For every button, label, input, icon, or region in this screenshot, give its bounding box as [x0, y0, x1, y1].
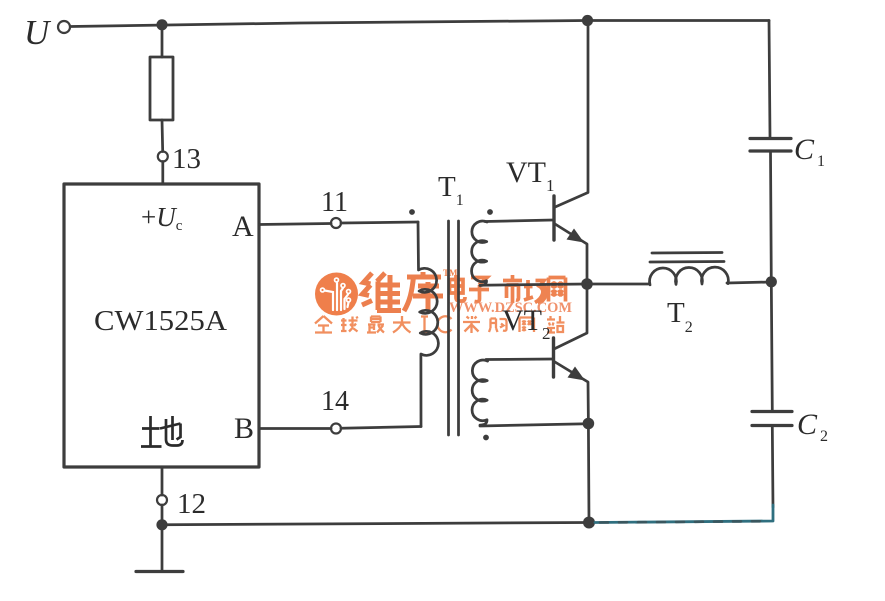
- transistor VT1 emitter: [555, 224, 587, 284]
- wire pin13 to IC: [161, 162, 164, 185]
- svg-text:11: 11: [321, 187, 348, 218]
- transistor VT2 emitter arrow: [568, 367, 586, 381]
- transistor VT2 collector: [554, 284, 587, 349]
- wire IC ground pin down: [161, 467, 164, 495]
- transformer T1 upper secondary winding: [472, 221, 487, 285]
- node right rail junction: [766, 276, 777, 287]
- transformer T1 lower secondary winding: [472, 360, 487, 425]
- transformer T1 phase dot lower secondary: [483, 435, 489, 441]
- wire C2 down: [771, 426, 774, 507]
- svg-text:+Uc: +Uc: [141, 202, 183, 234]
- wire terminal 11 to T1 primary: [341, 222, 418, 223]
- capacitor C1 plates: [750, 139, 791, 152]
- wire right rail upper (to C1): [769, 21, 770, 138]
- transistor VT1 emitter arrow: [567, 229, 585, 243]
- IC CW1525A body: [64, 184, 259, 467]
- wire bottom right teal return: [595, 505, 773, 523]
- watermark char I: [421, 317, 428, 333]
- wire right rail to C2: [771, 282, 772, 411]
- transformer T1 phase dot upper secondary: [487, 209, 493, 215]
- svg-text:U: U: [24, 13, 52, 52]
- wire T2 to right rail: [727, 282, 771, 283]
- wire bottom right teal return dark mottling: [600, 521, 770, 522]
- node resistor top junction: [156, 19, 167, 30]
- wire pin 12 to bottom rail: [161, 505, 164, 525]
- watermark char WANG: [549, 278, 566, 302]
- svg-text:T1: T1: [438, 171, 464, 209]
- svg-text:VT1: VT1: [506, 156, 555, 195]
- node center output junction: [581, 278, 593, 290]
- svg-text:14: 14: [321, 386, 349, 417]
- wire bottom rail: [162, 523, 589, 525]
- wire pin A to terminal 11: [259, 224, 331, 225]
- terminal pin 14: [331, 424, 341, 434]
- capacitor C2 plates: [752, 412, 792, 426]
- terminal pin 12: [157, 495, 167, 505]
- transistor VT1 collector: [554, 21, 588, 208]
- watermark char QIU: [341, 317, 358, 332]
- watermark char QUAN: [315, 316, 332, 333]
- watermark char WANG2: [520, 318, 535, 333]
- terminal pin 11: [331, 218, 341, 228]
- node VT2 emitter / lower winding junction: [583, 418, 595, 430]
- watermark char CAI: [463, 316, 480, 333]
- transformer T1 phase dot primary: [409, 209, 415, 215]
- watermark char DIAN: [450, 275, 466, 301]
- svg-text:A: A: [232, 210, 254, 243]
- resistor (dropping): [150, 57, 173, 120]
- label DI (ground) glyph: [141, 416, 183, 447]
- wire pin B to terminal 14: [259, 427, 331, 430]
- svg-text:13: 13: [172, 143, 201, 175]
- wire center node to T2: [587, 283, 649, 286]
- inductor T2 core: [650, 253, 724, 263]
- transistor VT1 base bar: [552, 196, 555, 240]
- wire VT2 emitter to bottom rail: [587, 424, 590, 523]
- watermark logo disc: [315, 273, 358, 316]
- inductor T2 winding: [650, 267, 729, 285]
- wire resistor to pin13: [161, 120, 164, 152]
- svg-text:T2: T2: [667, 297, 693, 336]
- wire top rail: [71, 21, 770, 27]
- svg-text:1: 1: [817, 153, 825, 170]
- transistor VT2 emitter: [555, 362, 588, 423]
- ground: [136, 570, 183, 573]
- node VT1 collector top junction: [582, 15, 593, 26]
- svg-text:2: 2: [820, 428, 828, 445]
- watermark char ZHAN: [547, 316, 565, 333]
- watermark big char KU: [404, 272, 443, 312]
- svg-text:C: C: [797, 408, 818, 441]
- wire rail to resistor: [161, 25, 164, 57]
- ground lead: [161, 525, 164, 571]
- node bottom-left junction: [156, 519, 167, 530]
- transistor VT2 base bar: [552, 338, 555, 377]
- wire upper secondary to VT1 base: [485, 220, 553, 222]
- wire lower secondary bottom to VT2 emitter node: [480, 424, 588, 426]
- wire lower secondary to VT2 base: [486, 359, 553, 361]
- watermark char ZUI: [367, 317, 384, 333]
- wire C1 to right junction: [769, 151, 773, 282]
- terminal pin 13: [158, 152, 168, 162]
- watermark char ZI: [469, 278, 489, 302]
- transformer T1 primary winding: [418, 222, 438, 427]
- wire upper secondary bottom to center node: [480, 284, 586, 285]
- svg-text:C: C: [794, 133, 815, 166]
- watermark big char WEI: [362, 273, 401, 311]
- watermark char C: [437, 316, 451, 332]
- svg-text:12: 12: [177, 488, 206, 520]
- transformer T1 core: [449, 221, 459, 435]
- watermark char SHI: [503, 275, 522, 303]
- terminal U: [58, 21, 70, 33]
- wire terminal 14 to T1 primary bottom: [341, 427, 421, 429]
- svg-text:CW1525A: CW1525A: [94, 305, 227, 337]
- node bottom rail junction: [583, 517, 595, 529]
- watermark char DA: [393, 316, 411, 333]
- watermark char GOU: [489, 319, 507, 333]
- svg-text:B: B: [234, 412, 254, 445]
- watermark char CHANG: [524, 280, 546, 304]
